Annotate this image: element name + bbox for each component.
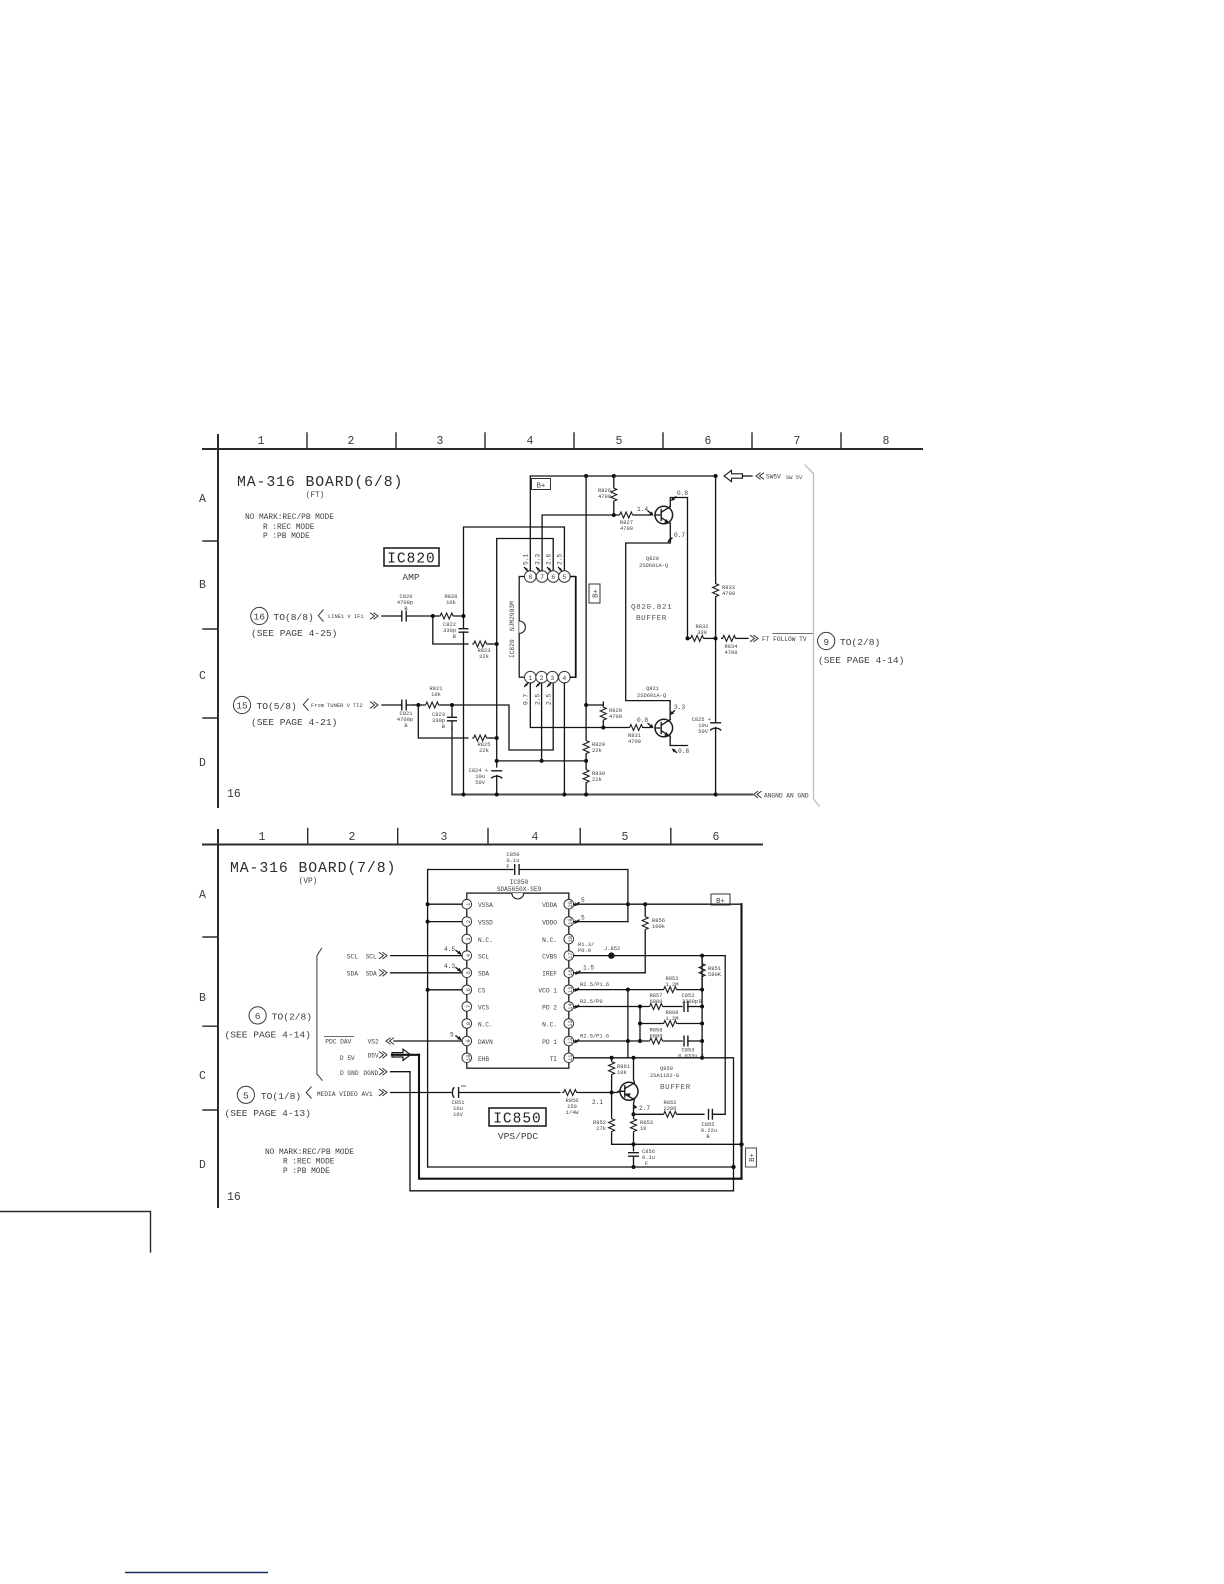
svg-text:N.C.: N.C. bbox=[542, 937, 557, 944]
svg-text:5: 5 bbox=[581, 897, 585, 904]
svg-text:TO(5/8): TO(5/8) bbox=[257, 701, 297, 712]
pin 1 bbox=[525, 671, 537, 683]
svg-text:6800: 6800 bbox=[650, 999, 663, 1005]
pin 3 bbox=[547, 671, 559, 683]
title MA-316 BOARD(6/8) bbox=[237, 475, 403, 500]
svg-text:3: 3 bbox=[551, 675, 555, 682]
svg-text:330: 330 bbox=[697, 630, 707, 636]
svg-text:1: 1 bbox=[258, 435, 265, 448]
svg-text:2.1: 2.1 bbox=[592, 1099, 603, 1106]
B+ bus vertical bbox=[740, 904, 742, 1178]
svg-text:N.C.: N.C. bbox=[542, 1022, 557, 1029]
svg-text:R2.5/P1.6: R2.5/P1.6 bbox=[580, 982, 609, 988]
node x628 pin20 row bbox=[626, 902, 630, 906]
svg-text:TI: TI bbox=[550, 1056, 558, 1063]
svg-text:4700: 4700 bbox=[628, 739, 641, 745]
wire C821node down to R825 bbox=[418, 705, 468, 738]
connector 15 TO(5/8) bbox=[233, 696, 378, 728]
node VCO1 x628 bbox=[626, 988, 630, 992]
node collector bbox=[632, 1112, 636, 1116]
svg-text:2: 2 bbox=[540, 675, 544, 682]
svg-text:0.8: 0.8 bbox=[678, 748, 689, 755]
label 2.7 bbox=[634, 1105, 651, 1113]
B+ box label vertical (bottom) bbox=[746, 1148, 758, 1167]
svg-text:D: D bbox=[199, 1159, 206, 1172]
AV1 input bbox=[317, 1089, 451, 1098]
label R2.5/P0 bbox=[574, 999, 603, 1009]
svg-text:J.852: J.852 bbox=[604, 946, 620, 952]
capacitor C822 bbox=[443, 616, 468, 644]
svg-text:10k: 10k bbox=[431, 692, 441, 698]
resistor R857 bbox=[648, 993, 682, 1010]
svg-text:AMP: AMP bbox=[402, 572, 420, 583]
svg-text:B+: B+ bbox=[749, 1153, 757, 1162]
node TI x702 bbox=[700, 1056, 704, 1060]
corner mark bottom-left bbox=[0, 1212, 151, 1253]
wire input1 bbox=[382, 615, 400, 617]
svg-text:P :PB MODE: P :PB MODE bbox=[263, 533, 310, 541]
svg-text:CVBS: CVBS bbox=[542, 954, 557, 961]
svg-text:2.6: 2.6 bbox=[546, 554, 553, 565]
svg-text:2.5: 2.5 bbox=[535, 694, 542, 705]
svg-text:15: 15 bbox=[236, 701, 248, 712]
svg-text:R :REC MODE: R :REC MODE bbox=[283, 1159, 335, 1167]
IC850 body bbox=[467, 879, 569, 1068]
svg-text:7: 7 bbox=[794, 435, 801, 448]
svg-text:4700: 4700 bbox=[725, 650, 738, 656]
svg-text:1/4W: 1/4W bbox=[566, 1110, 580, 1116]
B+ box label bbox=[532, 479, 551, 491]
IC850 label box bbox=[489, 1108, 546, 1142]
svg-text:1K: 1K bbox=[640, 1126, 647, 1132]
svg-text:LINE1 V IF1: LINE1 V IF1 bbox=[328, 614, 364, 620]
svg-text:2: 2 bbox=[348, 435, 355, 448]
wire x628 down to TI bbox=[627, 990, 629, 1058]
svg-text:2200: 2200 bbox=[664, 1106, 677, 1112]
wire R821 out to pin3 bbox=[452, 683, 553, 750]
svg-text:TO(2/8): TO(2/8) bbox=[840, 637, 880, 648]
wire x640 down bbox=[639, 1007, 641, 1042]
wire R833 branch bbox=[715, 476, 717, 582]
svg-text:16: 16 bbox=[254, 612, 266, 623]
svg-text:PD 1: PD 1 bbox=[542, 1039, 557, 1046]
node CVBS R851 bbox=[700, 954, 704, 958]
svg-text:BUFFER: BUFFER bbox=[660, 1084, 691, 1092]
wire pin2 up bbox=[541, 683, 543, 761]
node PD1 x640 bbox=[638, 1039, 642, 1043]
svg-text:IC850: IC850 bbox=[510, 879, 529, 886]
svg-text:6: 6 bbox=[713, 831, 720, 844]
wire loop B to pin6 bbox=[497, 539, 554, 645]
connector 16 TO(8/8) bbox=[251, 607, 378, 639]
label R2.5/P1.6 pin15 bbox=[574, 982, 609, 992]
SCL input bbox=[347, 946, 462, 960]
node B+ x586 bbox=[584, 474, 588, 478]
svg-text:3: 3 bbox=[466, 937, 472, 940]
svg-text:1: 1 bbox=[528, 675, 532, 682]
resistor R828 bbox=[600, 705, 622, 728]
connector 5 TO(1/8) bbox=[225, 1086, 312, 1119]
IC820 label box bbox=[384, 548, 439, 583]
label R2.5/P1.6 pin12 bbox=[574, 1034, 609, 1044]
svg-text:FT FOLLOW TV: FT FOLLOW TV bbox=[762, 636, 807, 643]
svg-text:3.3: 3.3 bbox=[674, 704, 685, 711]
svg-text:MA-316 BOARD(6/8): MA-316 BOARD(6/8) bbox=[237, 475, 403, 491]
svg-text:SW5V: SW5V bbox=[766, 474, 781, 481]
svg-text:SDA: SDA bbox=[366, 970, 377, 977]
svg-text:IC850: IC850 bbox=[493, 1112, 542, 1128]
resistor R862 bbox=[634, 1100, 705, 1117]
PD2 row bbox=[574, 1006, 648, 1008]
svg-text:B: B bbox=[199, 992, 206, 1005]
svg-text:22k: 22k bbox=[592, 748, 602, 754]
wire TI row bbox=[574, 1058, 734, 1191]
node B+ x614 bbox=[612, 474, 616, 478]
ANGND label bbox=[754, 791, 809, 799]
resistor R851 bbox=[699, 956, 722, 990]
svg-text:R2.5/P0: R2.5/P0 bbox=[580, 999, 603, 1005]
svg-text:B: B bbox=[199, 579, 206, 592]
svg-text:SCL: SCL bbox=[347, 953, 358, 960]
wire pin2 row bbox=[428, 921, 462, 923]
svg-text:VDDA: VDDA bbox=[542, 902, 557, 909]
node R826/R827 bbox=[612, 513, 616, 517]
VS2 / PDC DAV bbox=[324, 1032, 462, 1046]
capacitor C823 bbox=[432, 705, 457, 730]
pin19 VDDO row bbox=[574, 921, 628, 923]
svg-text:A: A bbox=[199, 889, 206, 902]
node pin2 row bbox=[495, 759, 499, 763]
node after C820 bbox=[431, 614, 435, 618]
svg-text:N.C.: N.C. bbox=[478, 937, 493, 944]
svg-text:ANGND AN GND: ANGND AN GND bbox=[764, 793, 809, 800]
svg-text:5: 5 bbox=[622, 831, 629, 844]
svg-text:100k: 100k bbox=[652, 924, 665, 930]
svg-text:6: 6 bbox=[466, 988, 472, 991]
svg-text:13: 13 bbox=[568, 1020, 574, 1026]
svg-text:C: C bbox=[199, 670, 206, 683]
svg-text:NO MARK:REC/PB MODE: NO MARK:REC/PB MODE bbox=[265, 1149, 354, 1157]
svg-text:P0.9: P0.9 bbox=[578, 948, 591, 954]
wire Q821 emitter bbox=[670, 736, 687, 745]
resistor R823 bbox=[472, 641, 497, 660]
svg-text:VS2: VS2 bbox=[368, 1038, 379, 1045]
svg-text:5: 5 bbox=[466, 971, 472, 974]
wire Q820 emitter bbox=[626, 523, 671, 719]
capacitor C821 bbox=[397, 700, 414, 730]
svg-text:7: 7 bbox=[466, 1005, 472, 1008]
capacitor C850 bbox=[506, 852, 519, 875]
capacitor C825 (electrolytic) bbox=[692, 638, 722, 794]
svg-text:5: 5 bbox=[243, 1090, 249, 1101]
svg-text:6: 6 bbox=[255, 1011, 261, 1022]
svg-text:(SEE PAGE 4-13): (SEE PAGE 4-13) bbox=[225, 1108, 311, 1119]
svg-text:8: 8 bbox=[883, 435, 890, 448]
wire D5V down and right to B+ bus bbox=[419, 1055, 742, 1179]
capacitor C824 (electrolytic) bbox=[469, 768, 503, 795]
node R825 right bbox=[495, 736, 499, 740]
svg-text:9: 9 bbox=[466, 1039, 472, 1042]
left row border (bottom) bbox=[199, 830, 241, 1207]
wire pin4 to rail bbox=[563, 683, 565, 794]
svg-text:MEDIA VIDEO AV1: MEDIA VIDEO AV1 bbox=[317, 1091, 373, 1098]
svg-text:6: 6 bbox=[705, 435, 712, 448]
resistor R827 bbox=[618, 506, 654, 532]
capacitor C853 bbox=[678, 1036, 704, 1060]
resistor R826 bbox=[598, 476, 617, 515]
svg-text:(SEE PAGE 4-14): (SEE PAGE 4-14) bbox=[818, 655, 904, 666]
B+ box label (top) bbox=[711, 894, 730, 906]
resistor R852 (1.2M) bbox=[662, 976, 702, 993]
svg-text:8: 8 bbox=[466, 1022, 472, 1025]
svg-text:BUFFER: BUFFER bbox=[636, 615, 667, 623]
resistor R832 bbox=[689, 624, 716, 641]
wire input2 bbox=[382, 704, 400, 706]
svg-text:EHB: EHB bbox=[478, 1056, 489, 1063]
wire pin5-pin4 jumper bbox=[570, 577, 575, 678]
svg-text:27k: 27k bbox=[596, 1126, 606, 1132]
svg-text:N.C.: N.C. bbox=[478, 1022, 493, 1029]
pin20 VDDA row bbox=[574, 903, 742, 905]
IC820 comparator body bbox=[509, 577, 576, 678]
label 0.8 collector bbox=[671, 490, 688, 501]
resistor R829 bbox=[580, 739, 605, 755]
pin 8 bbox=[525, 571, 537, 583]
resistor R820 bbox=[435, 594, 464, 619]
board outline right bbox=[805, 464, 820, 806]
svg-text:4700: 4700 bbox=[722, 591, 735, 597]
svg-text:6: 6 bbox=[551, 574, 555, 581]
x702 bus bbox=[701, 956, 703, 1058]
label Q821 bbox=[637, 686, 666, 699]
B+ box label vertical bbox=[589, 584, 601, 603]
svg-text:C: C bbox=[199, 1070, 206, 1083]
resistor R830 bbox=[580, 768, 605, 784]
resistor R852 (27k) bbox=[593, 1117, 618, 1133]
node R823/loopB bbox=[495, 642, 499, 646]
node x586 R828 bbox=[584, 703, 588, 707]
wire Q820 collector bbox=[670, 498, 687, 639]
svg-text:Q820: Q820 bbox=[646, 556, 659, 562]
label 0.7 emitter bbox=[668, 532, 686, 543]
node PD2 x640 bbox=[638, 1005, 642, 1009]
resistor R821 bbox=[424, 686, 452, 708]
svg-text:3300p: 3300p bbox=[682, 999, 698, 1005]
label 5 pin20 bbox=[574, 897, 585, 906]
node R828 base row bbox=[601, 726, 605, 730]
svg-text:0.7: 0.7 bbox=[523, 694, 530, 705]
svg-text:D5V: D5V bbox=[368, 1052, 379, 1059]
pin voltage labels top bbox=[523, 554, 564, 571]
svg-text:B+: B+ bbox=[716, 898, 725, 906]
wire Q850 emitter up to TI bbox=[633, 1058, 636, 1083]
capacitor C851 (electrolytic horizontal) bbox=[452, 1086, 560, 1118]
svg-text:D 5V: D 5V bbox=[340, 1055, 355, 1062]
svg-text:9: 9 bbox=[823, 637, 829, 648]
wire DGND down bbox=[410, 1072, 734, 1191]
node C856 bottom bbox=[632, 1165, 636, 1169]
pin 7 bbox=[536, 571, 548, 583]
pin 4 bbox=[559, 671, 571, 683]
svg-text:4700: 4700 bbox=[598, 494, 611, 500]
label 5 pin19 bbox=[574, 915, 585, 924]
svg-text:5: 5 bbox=[563, 574, 567, 581]
resistor R860 bbox=[662, 1010, 702, 1027]
bottom column ruler bbox=[203, 829, 762, 845]
svg-text:SDA: SDA bbox=[478, 971, 489, 978]
node R832 left bbox=[686, 636, 690, 640]
svg-text:Q821: Q821 bbox=[646, 686, 659, 692]
svg-text:R :REC MODE: R :REC MODE bbox=[263, 524, 315, 532]
svg-text:2.5: 2.5 bbox=[546, 694, 553, 705]
label 0.8 emitter bbox=[672, 748, 690, 755]
pin 6 bbox=[547, 571, 559, 583]
SDA input bbox=[347, 963, 462, 977]
svg-text:1.4: 1.4 bbox=[637, 506, 648, 513]
svg-text:22k: 22k bbox=[479, 748, 489, 754]
node TI Q850 bbox=[632, 1056, 636, 1060]
footer blue line bbox=[125, 1572, 268, 1574]
wire Q850 collector down bbox=[633, 1100, 636, 1115]
svg-text:R2.5/P1.6: R2.5/P1.6 bbox=[580, 1034, 609, 1040]
bracket TO(2/8) bbox=[317, 948, 323, 1081]
top column ruler bbox=[203, 433, 922, 449]
FT FOLLOW TV out bbox=[750, 634, 814, 644]
svg-text:SCL: SCL bbox=[478, 954, 489, 961]
node x702 PD2 bbox=[700, 1005, 704, 1009]
svg-text:MA-316 BOARD(7/8): MA-316 BOARD(7/8) bbox=[230, 861, 396, 877]
ground row bbox=[428, 1166, 734, 1168]
svg-text:D GND: D GND bbox=[340, 1070, 359, 1077]
svg-text:B: B bbox=[706, 1134, 710, 1140]
svg-text:1: 1 bbox=[259, 831, 266, 844]
svg-text:3: 3 bbox=[437, 435, 444, 448]
node FT row bbox=[714, 636, 718, 640]
svg-text:1.2M: 1.2M bbox=[666, 982, 679, 988]
SW5V entry arrow bbox=[724, 470, 803, 481]
resistor R853 bbox=[628, 1114, 653, 1144]
node B+ SW5V bbox=[714, 474, 718, 478]
node R853 bottom bbox=[632, 1142, 636, 1146]
svg-text:VCS: VCS bbox=[478, 1005, 489, 1012]
capacitor C852 bbox=[682, 993, 703, 1012]
node C821 out bbox=[416, 703, 420, 707]
svg-text:NO MARK:REC/PB MODE: NO MARK:REC/PB MODE bbox=[245, 514, 334, 522]
node TI R861 bbox=[610, 1056, 614, 1060]
node x702 VCO1 bbox=[700, 988, 704, 992]
rail junction nodes bbox=[462, 793, 466, 797]
node ground TI bbox=[731, 1165, 735, 1169]
svg-text:B: B bbox=[404, 723, 408, 729]
label Q850 bbox=[650, 1066, 691, 1092]
node R820 out bbox=[462, 614, 466, 618]
wire loop A to pin5 bbox=[464, 527, 565, 616]
svg-text:SDA: SDA bbox=[347, 970, 358, 977]
svg-text:B: B bbox=[442, 724, 446, 730]
CVBS row bbox=[574, 955, 726, 957]
svg-text:2SA1162-G: 2SA1162-G bbox=[650, 1073, 679, 1079]
svg-text:4700: 4700 bbox=[609, 714, 622, 720]
svg-text:16V: 16V bbox=[453, 1112, 463, 1118]
capacitor C820 bbox=[397, 594, 414, 622]
svg-text:580K: 580K bbox=[708, 972, 722, 978]
node R821 out bbox=[450, 703, 454, 707]
svg-text:4.5: 4.5 bbox=[444, 946, 455, 953]
svg-text:A: A bbox=[199, 493, 206, 506]
IREF row bbox=[574, 972, 646, 974]
wire C823 down to rail start bbox=[451, 729, 453, 795]
svg-text:0.1u: 0.1u bbox=[642, 1155, 655, 1161]
+5V return row bbox=[612, 1143, 742, 1145]
svg-text:2.5: 2.5 bbox=[557, 554, 564, 565]
svg-text:50V: 50V bbox=[698, 729, 708, 735]
resistor R825 bbox=[472, 735, 497, 754]
svg-text:Q820.821: Q820.821 bbox=[631, 604, 672, 612]
svg-text:B+: B+ bbox=[537, 483, 546, 491]
resistor R850 bbox=[562, 1090, 618, 1117]
svg-text:VSSD: VSSD bbox=[478, 920, 493, 927]
label R1.3/P0.9 bbox=[578, 942, 594, 954]
svg-text:0.8: 0.8 bbox=[637, 717, 648, 724]
IC850 right pins bbox=[564, 899, 574, 1062]
pin 2 bbox=[536, 671, 548, 683]
svg-text:4.3: 4.3 bbox=[444, 963, 455, 970]
wire pin1 down to base row bbox=[530, 683, 628, 727]
svg-text:B: B bbox=[453, 634, 457, 640]
wire to R820 bbox=[414, 615, 434, 617]
svg-text:50V: 50V bbox=[475, 780, 485, 786]
wire x586 B+ to R828 bbox=[586, 476, 603, 705]
wire base divider down bbox=[611, 1093, 613, 1145]
svg-text:2: 2 bbox=[466, 920, 472, 923]
svg-text:SCL: SCL bbox=[366, 953, 377, 960]
svg-text:18: 18 bbox=[568, 936, 574, 942]
svg-text:4: 4 bbox=[527, 435, 534, 448]
svg-text:5.1: 5.1 bbox=[523, 554, 530, 565]
svg-text:22k: 22k bbox=[479, 654, 489, 660]
svg-text:7: 7 bbox=[540, 574, 544, 581]
resistor R834 bbox=[721, 635, 748, 656]
svg-text:IC820: IC820 bbox=[387, 552, 436, 568]
svg-text:8: 8 bbox=[528, 574, 532, 581]
test point J.852 bbox=[604, 946, 620, 959]
wire C822 down to ground rail bbox=[463, 644, 465, 795]
resistor R861 bbox=[609, 1058, 630, 1093]
pin voltage labels bottom bbox=[523, 683, 553, 705]
svg-text:VCO 1: VCO 1 bbox=[538, 988, 557, 995]
svg-text:2: 2 bbox=[349, 831, 356, 844]
node PD1 x628 bbox=[626, 1039, 630, 1043]
svg-text:TO(8/8): TO(8/8) bbox=[274, 612, 314, 623]
svg-text:22k: 22k bbox=[592, 777, 602, 783]
label 3.3 collector bbox=[670, 704, 685, 715]
capacitor C856 bbox=[628, 1144, 655, 1167]
resistor R833 bbox=[713, 582, 735, 638]
svg-text:0.8: 0.8 bbox=[677, 490, 688, 497]
svg-text:(SEE PAGE 4-14): (SEE PAGE 4-14) bbox=[225, 1030, 311, 1041]
svg-text:2SD601A-Q: 2SD601A-Q bbox=[639, 563, 668, 569]
svg-text:NJM2903M: NJM2903M bbox=[509, 601, 516, 631]
node x586 row2 bbox=[584, 759, 588, 763]
legend NO MARK (bottom) bbox=[265, 1149, 354, 1176]
D5V input big arrow bbox=[340, 1049, 419, 1062]
svg-text:TO(1/8): TO(1/8) bbox=[261, 1091, 301, 1102]
wire C850 right to VDDO bbox=[519, 870, 628, 922]
PD1 row bbox=[574, 1040, 648, 1042]
svg-text:DGND: DGND bbox=[363, 1070, 378, 1077]
left row border bbox=[199, 435, 241, 807]
svg-text:D: D bbox=[199, 757, 206, 770]
